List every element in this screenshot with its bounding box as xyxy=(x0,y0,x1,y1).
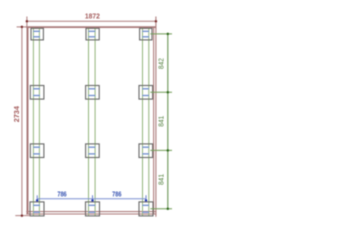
wall bottom inner edge xyxy=(26,211,156,213)
wall bottom outer edge xyxy=(26,213,156,215)
beam line column 2 right xyxy=(94,28,96,216)
wall top edge xyxy=(26,26,156,28)
svg-text:786: 786 xyxy=(112,191,121,199)
svg-text:2734: 2734 xyxy=(12,106,21,122)
svg-text:786: 786 xyxy=(57,191,66,199)
wall right outer edge xyxy=(155,17,157,217)
dimension 2734 left height xyxy=(12,26,30,217)
post P5 row 2 column 2 xyxy=(86,86,100,100)
post P7 row 3 column 1 xyxy=(30,144,44,158)
beam line column 3 left xyxy=(142,28,144,216)
post P9 row 3 column 3 xyxy=(139,144,153,158)
wall right inner edge xyxy=(153,27,155,214)
beam line column 1 right xyxy=(38,28,40,216)
post P3 row 1 column 3 xyxy=(140,28,152,40)
beam line column 2 left xyxy=(88,28,90,216)
post P10 row 4 column 1 xyxy=(30,202,44,216)
dimension chain 786 786 bottom xyxy=(36,191,147,202)
post P4 row 2 column 1 xyxy=(30,86,44,100)
dimension 1872 top width xyxy=(26,12,158,27)
beam line column 3 right xyxy=(148,28,150,216)
wall left edge xyxy=(27,27,29,214)
post P12 row 4 column 3 xyxy=(139,202,153,216)
post P8 row 3 column 2 xyxy=(86,144,100,158)
dimension chain 842 841 841 right side xyxy=(150,33,172,210)
beam line column 1 left xyxy=(32,28,34,216)
svg-text:842: 842 xyxy=(157,58,166,69)
post P2 row 1 column 2 xyxy=(86,28,99,40)
svg-text:1872: 1872 xyxy=(85,12,100,21)
svg-text:841: 841 xyxy=(157,174,166,185)
post P6 row 2 column 3 xyxy=(139,86,153,100)
post P11 row 4 column 2 xyxy=(86,202,100,216)
post P1 row 1 column 1 xyxy=(31,28,43,40)
svg-text:841: 841 xyxy=(157,116,166,127)
